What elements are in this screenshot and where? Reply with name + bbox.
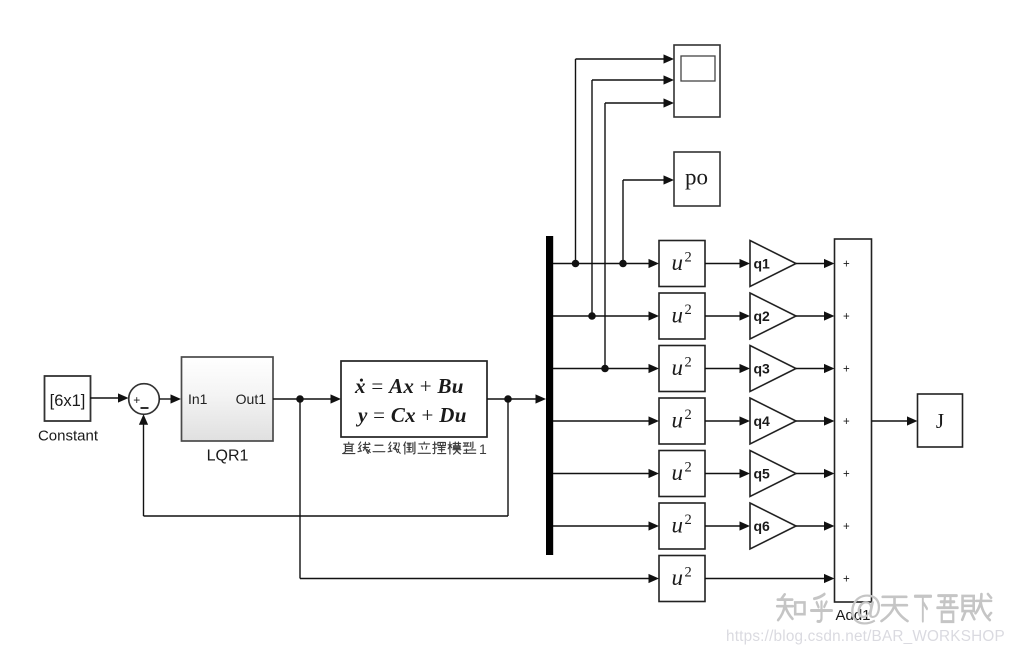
wire u2_6 to gain q6 [705, 521, 750, 530]
math block u2_5 (u squared) [659, 451, 705, 497]
svg-text:1: 1 [479, 441, 487, 457]
wire Add1 to J [872, 416, 918, 425]
wire model output to Demux [487, 394, 546, 403]
display block po [674, 152, 720, 206]
svg-text:LQR1: LQR1 [207, 448, 249, 465]
svg-text:q6: q6 [754, 518, 771, 534]
wire u2_1 to gain q1 [705, 259, 750, 268]
svg-text:2: 2 [685, 302, 692, 318]
svg-text:https://blog.csdn.net/BAR_WORK: https://blog.csdn.net/BAR_WORKSHOP [726, 628, 1005, 645]
node junction row2 scope tap [588, 312, 596, 320]
svg-text:q5: q5 [754, 466, 771, 482]
svg-text:u: u [672, 460, 684, 485]
sum junction Sum [129, 384, 160, 415]
svg-text:+: + [843, 521, 850, 533]
svg-text:q2: q2 [754, 308, 771, 324]
node junction on model output [504, 395, 512, 403]
wire row1 tap to Scope input 1 [576, 54, 675, 263]
wire gain q4 to Add1 [796, 416, 835, 425]
svg-text:+: + [133, 393, 140, 407]
wire u2_4 to gain q4 [705, 416, 750, 425]
state-space block 直线二级倒立摆模型1 [341, 361, 487, 457]
math block u2_3 (u squared) [659, 346, 705, 392]
wire gain q6 to Add1 [796, 521, 835, 530]
wire Sum to LQR1 [159, 394, 181, 403]
math block u2_2 (u squared) [659, 293, 705, 339]
svg-text:+: + [843, 311, 850, 323]
demux Demux bar [546, 236, 553, 555]
wire gain q2 to Add1 [796, 311, 835, 320]
math block u2_7 (u squared) [659, 556, 705, 602]
svg-text:u: u [672, 303, 684, 328]
output block J [918, 394, 963, 447]
watermark 知乎@天下吾贼 [777, 594, 804, 620]
svg-text:+: + [843, 469, 850, 481]
wire Demux out2 to u2 block 2 [553, 311, 659, 320]
svg-text:q3: q3 [754, 361, 771, 377]
svg-text:u: u [672, 250, 684, 275]
svg-text:2: 2 [685, 355, 692, 371]
svg-text:u: u [672, 565, 684, 590]
svg-text:[6x1]: [6x1] [50, 392, 86, 410]
wire LQR1 Out1 to state-space model [273, 394, 341, 403]
wire Demux out3 to u2 block 3 [553, 364, 659, 373]
svg-text:2: 2 [685, 460, 692, 476]
svg-text:+: + [843, 259, 850, 271]
wire row1 tap to po [623, 175, 674, 263]
scope Scope [674, 45, 720, 117]
wire gain q5 to Add1 [796, 469, 835, 478]
svg-text:+: + [843, 574, 850, 586]
gain q3 [750, 346, 796, 392]
svg-text:u: u [672, 355, 684, 380]
svg-text:2: 2 [685, 250, 692, 266]
svg-text:J: J [936, 409, 944, 433]
svg-text:q4: q4 [754, 413, 771, 429]
wire Constant to Sum [90, 393, 129, 402]
wire row3 tap to Scope input 3 [605, 98, 674, 368]
wire u2_7 to Add1 [705, 574, 835, 583]
wire LQR1 output down to u2_7 [300, 399, 659, 583]
svg-text:In1: In1 [188, 391, 208, 407]
wire feedback model output to Sum minus input [139, 399, 508, 516]
svg-text:y = Cx + Du: y = Cx + Du [355, 403, 467, 427]
svg-text:ẋ = Ax + Bu: ẋ = Ax + Bu [354, 374, 464, 398]
wire Demux out5 to u2 block 5 [553, 469, 659, 478]
constant block [6x1] Constant [38, 376, 99, 445]
node junction row3 scope tap [601, 365, 609, 373]
svg-text:+: + [843, 364, 850, 376]
svg-text:u: u [672, 408, 684, 433]
wire gain q3 to Add1 [796, 364, 835, 373]
gain q6 [750, 503, 796, 549]
gain q1 [750, 241, 796, 287]
svg-text:Constant: Constant [38, 428, 99, 445]
svg-text:q1: q1 [754, 256, 771, 272]
subsystem LQR1 [182, 357, 274, 465]
svg-text:po: po [685, 165, 708, 190]
svg-text:2: 2 [685, 565, 692, 581]
svg-text:@: @ [849, 590, 884, 628]
wire u2_5 to gain q5 [705, 469, 750, 478]
gain q5 [750, 451, 796, 497]
svg-text:+: + [843, 416, 850, 428]
gain q4 [750, 398, 796, 444]
adder Add1 [835, 239, 872, 624]
wire Demux out4 to u2 block 4 [553, 416, 659, 425]
gain q2 [750, 293, 796, 339]
math block u2_6 (u squared) [659, 503, 705, 549]
node junction row1 po tap [619, 260, 627, 268]
wire row2 tap to Scope input 2 [592, 75, 674, 316]
svg-text:2: 2 [685, 407, 692, 423]
wire gain q1 to Add1 [796, 259, 835, 268]
wire u2_2 to gain q2 [705, 311, 750, 320]
wire Demux out1 to u2 block 1 [553, 259, 659, 268]
node junction row1 scope tap [572, 260, 580, 268]
wire Demux out6 to u2 block 6 [553, 521, 659, 530]
node junction on LQR1 output [296, 395, 304, 403]
svg-text:u: u [672, 513, 684, 538]
math block u2_4 (u squared) [659, 398, 705, 444]
wire u2_3 to gain q3 [705, 364, 750, 373]
svg-text:2: 2 [685, 512, 692, 528]
svg-text:Out1: Out1 [236, 391, 267, 407]
math block u2_1 (u squared) [659, 241, 705, 287]
